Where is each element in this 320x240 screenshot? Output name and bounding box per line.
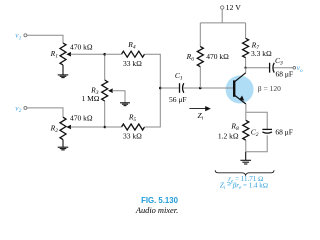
resistor R6 zigzag	[197, 47, 203, 67]
ground G1 under R1	[58, 65, 69, 78]
svg-text:Audio mixer.: Audio mixer.	[135, 206, 178, 215]
transistor Q1 emitter arrowhead	[239, 96, 244, 101]
wire node A to node B vertical (R3 branch)	[104, 54, 106, 127]
svg-text:C1: C1	[175, 71, 183, 82]
resistor R1 potentiometer zigzag	[60, 43, 66, 65]
resistor R5 zigzag	[122, 124, 145, 130]
svg-text:33 kΩ: 33 kΩ	[123, 132, 142, 141]
capacitor C3 plates	[270, 63, 275, 73]
node collector junction dot	[244, 67, 246, 69]
node B junction dot	[104, 126, 107, 129]
ground G4 R3 wiper	[120, 103, 130, 106]
wire R2 wiper to node B	[71, 126, 105, 128]
terminal VCC	[221, 6, 224, 9]
congruence tilde over first equals	[227, 182, 231, 183]
wire supply stem	[221, 9, 223, 23]
brace under emitter network	[215, 170, 274, 175]
R3 wiper arrow	[108, 88, 113, 93]
terminal v1	[24, 34, 27, 37]
wire collector junction to C3	[246, 67, 269, 69]
transistor Q1 body circle	[226, 76, 254, 104]
wire node A to R4	[105, 53, 122, 55]
svg-text:v1: v1	[15, 31, 21, 42]
terminal v2	[24, 106, 27, 109]
svg-text:Zi: Zi	[197, 111, 203, 122]
svg-text:R1: R1	[50, 49, 59, 60]
transistor Q1 base bar	[233, 80, 235, 96]
wire emitter to R8	[245, 112, 247, 120]
wire R8 bottom to ground rail	[246, 135, 267, 152]
wire C3 to output	[274, 67, 294, 69]
wire v1 input lead	[27, 35, 63, 43]
svg-text:C2: C2	[251, 128, 259, 139]
node A junction dot	[103, 53, 106, 56]
wire R1 wiper to node A	[71, 53, 105, 55]
terminal vo	[293, 67, 296, 70]
wire R5 to bus	[145, 88, 161, 127]
wire node B to R5	[105, 126, 122, 128]
wire emitter top rail to C2 branch	[246, 112, 267, 129]
svg-text:470 kΩ: 470 kΩ	[70, 113, 93, 122]
node base junction dot	[199, 87, 202, 90]
svg-text:33 kΩ: 33 kΩ	[123, 59, 142, 68]
ground G3 emitter	[240, 152, 251, 164]
svg-text:R4: R4	[127, 40, 136, 51]
capacitor C2 plates	[262, 129, 272, 133]
wire top supply rail	[200, 22, 245, 24]
svg-text:1 MΩ: 1 MΩ	[81, 94, 99, 103]
transistor Q1 emitter stroke	[235, 96, 246, 105]
wire v2 input lead	[27, 108, 63, 117]
wire bus to C1	[160, 87, 179, 89]
svg-text:R2: R2	[50, 124, 59, 135]
wire collector lead into transistor	[245, 68, 247, 73]
svg-text:1.2 kΩ: 1.2 kΩ	[218, 131, 239, 140]
resistor R7 zigzag	[243, 38, 249, 57]
resistor R8 zigzag	[243, 120, 249, 140]
capacitor C1 plates	[180, 83, 184, 93]
svg-text:56 μF: 56 μF	[169, 95, 187, 104]
svg-text:Zi = βre = 1.4 kΩ: Zi = βre = 1.4 kΩ	[220, 181, 268, 190]
resistor R2 potentiometer zigzag	[60, 117, 66, 139]
svg-text:68 μF: 68 μF	[275, 128, 293, 137]
wire R7 branch vertical	[245, 23, 247, 68]
svg-text:470 kΩ: 470 kΩ	[70, 43, 93, 52]
svg-text:R6: R6	[186, 52, 195, 63]
svg-text:68 μF: 68 μF	[276, 70, 294, 79]
resistor R4 zigzag	[122, 51, 145, 57]
wire R3 wiper to ground G4	[112, 91, 125, 103]
node C1-in junction dot	[159, 87, 162, 90]
wire R4 to bus	[145, 54, 161, 88]
svg-text:FIG. 5.130: FIG. 5.130	[141, 196, 179, 205]
svg-text:β = 120: β = 120	[258, 84, 281, 93]
R2 wiper arrow	[66, 125, 71, 130]
svg-text:470 kΩ: 470 kΩ	[206, 52, 229, 61]
svg-text:v2: v2	[15, 103, 21, 114]
ground G2 under R2	[58, 140, 69, 150]
svg-text:12 V: 12 V	[226, 3, 242, 12]
input impedance arrow Zi	[189, 108, 206, 110]
wire C1 to base node	[183, 87, 233, 89]
resistor R3 potentiometer zigzag	[102, 80, 108, 101]
svg-text:C3: C3	[275, 56, 283, 66]
wire emitter lead down	[245, 104, 247, 112]
transistor Q1 collector stroke	[235, 73, 246, 82]
svg-text:vo: vo	[297, 63, 303, 74]
R1 wiper arrow	[66, 52, 71, 57]
wire R6 branch vertical	[199, 23, 201, 88]
svg-text:3.3 kΩ: 3.3 kΩ	[251, 49, 272, 58]
svg-text:R5: R5	[128, 113, 137, 124]
